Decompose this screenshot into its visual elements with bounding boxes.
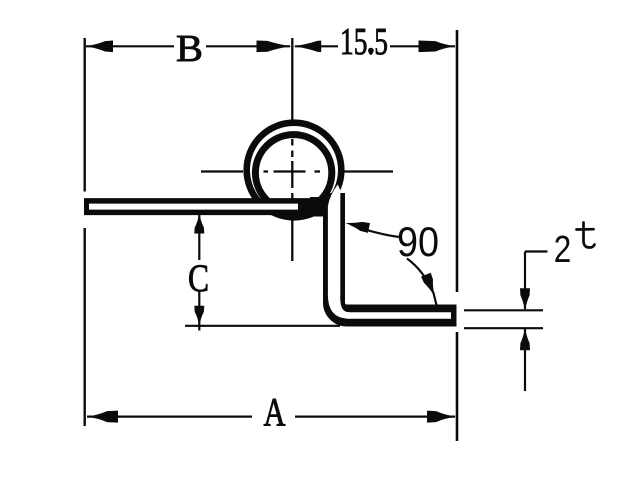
svg-text:2: 2 xyxy=(554,229,572,271)
svg-text:A: A xyxy=(264,390,286,435)
svg-text:B: B xyxy=(176,28,203,70)
svg-text:90: 90 xyxy=(397,218,439,265)
svg-text:15.5: 15.5 xyxy=(340,21,388,63)
svg-text:C: C xyxy=(188,257,209,300)
